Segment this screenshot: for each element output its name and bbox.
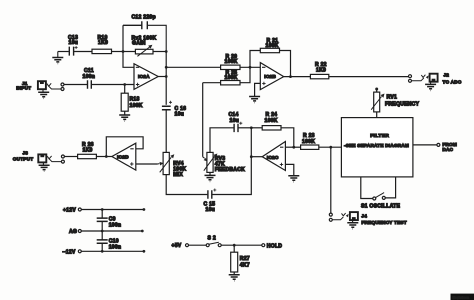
svg-text:10u: 10u <box>230 118 240 124</box>
node: FROM DAC terminal <box>437 142 457 152</box>
node: R19/RV2/feedback junction <box>122 50 125 53</box>
svg-text:+12V: +12V <box>63 208 76 214</box>
wire: IC2D feedback loop <box>106 137 143 157</box>
wire: IC2C + input to ground <box>285 164 293 175</box>
potentiometer RV3 47K FEEDBACK <box>204 152 245 175</box>
svg-text:J3: J3 <box>23 151 29 156</box>
svg-text:100n: 100n <box>109 245 122 251</box>
svg-text:FREQUENCY: FREQUENCY <box>385 101 420 107</box>
capacitor C13 <box>68 35 78 55</box>
svg-text:10u: 10u <box>206 207 216 213</box>
node D: IC2C output junction <box>250 155 253 158</box>
wire: R25 down to RV3 wiper <box>202 83 204 157</box>
node: IC2A output junction <box>165 75 168 78</box>
op-amp IC2A <box>134 64 158 90</box>
svg-text:R18: R18 <box>130 96 140 102</box>
svg-text:GAIN: GAIN <box>132 41 146 47</box>
resistor R18 <box>121 85 143 115</box>
ground G10 (R27) <box>229 275 240 281</box>
wire: R20 to IC2B - input <box>240 66 260 68</box>
jack J3 OUTPUT <box>13 151 65 164</box>
svg-text:10u: 10u <box>175 111 185 117</box>
ground G4 (IC2B +) <box>249 97 260 103</box>
svg-text:J4: J4 <box>361 213 367 218</box>
resistor R19 <box>92 35 112 53</box>
wire: J1 to C11 <box>64 84 87 86</box>
svg-text:100K: 100K <box>265 118 278 124</box>
ground G9 (J4) <box>347 220 358 229</box>
capacitor C12 <box>123 15 166 52</box>
svg-text:TO ADC: TO ADC <box>443 79 462 84</box>
svg-text:1K0: 1K0 <box>83 147 93 153</box>
wire: feedback left vertical (node to C12 rail and IC2A - input) <box>123 25 134 67</box>
wire: C13 to R19 <box>74 51 92 53</box>
ground G3 (R18) <box>119 115 130 121</box>
svg-text:S1 OSCILLATE: S1 OSCILLATE <box>361 204 400 210</box>
ground G1 (C13 left) <box>52 52 63 64</box>
node: IC2B inverting input junction <box>249 66 252 69</box>
svg-text:J2: J2 <box>444 73 450 78</box>
wire: C14 to node A <box>239 127 252 129</box>
svg-text:100K: 100K <box>225 59 238 65</box>
wire: ground to C13 <box>58 51 69 53</box>
svg-text:INPUT: INPUT <box>16 86 31 91</box>
wire: IC2C - input <box>285 146 293 148</box>
svg-text:1K0: 1K0 <box>316 68 326 74</box>
svg-text:-SEE SEPARATE DIAGRAM: -SEE SEPARATE DIAGRAM <box>344 143 409 148</box>
switch S2 <box>206 235 221 246</box>
wire: J3 to R26 <box>64 156 77 158</box>
svg-text:OUTPUT: OUTPUT <box>13 157 33 162</box>
jack J2 TO ADC <box>409 73 462 85</box>
svg-text:100n: 100n <box>83 74 96 80</box>
node: R18 junction <box>123 83 126 86</box>
svg-text:FILTER: FILTER <box>370 133 389 139</box>
wire: IC2C output to node D <box>251 156 262 158</box>
wire: C15 to RV4 bottom <box>166 175 207 195</box>
svg-text:100n: 100n <box>109 223 122 229</box>
wire: C11 to IC2A + input <box>92 84 134 86</box>
wire: R22 to J2 <box>329 76 409 78</box>
potentiometer RV2 GAIN <box>123 35 166 56</box>
node: RV2 right junction <box>165 50 168 53</box>
wire: R26 to IC2D output node <box>96 156 112 158</box>
capacitor C11 <box>83 68 96 89</box>
svg-text:R27: R27 <box>240 256 250 262</box>
svg-text:IC2B: IC2B <box>264 74 276 80</box>
svg-text:+5V: +5V <box>172 243 182 249</box>
ground G8 (J2) <box>425 82 436 91</box>
svg-text:100K: 100K <box>302 139 315 145</box>
node B: IC2C - input / R23 junction <box>292 146 295 149</box>
svg-text:IC2C: IC2C <box>267 155 279 161</box>
svg-text:100K: 100K <box>225 75 238 81</box>
svg-text:MagicScan: MagicScan <box>453 295 470 299</box>
ground G6 (IC2C +) <box>288 176 299 182</box>
terminal HOLD <box>262 243 283 249</box>
capacitor C9 <box>97 210 122 232</box>
resistor R20 <box>221 54 240 70</box>
wire: RV3 wiper arrow <box>203 157 205 159</box>
svg-text:HOLD: HOLD <box>267 243 283 249</box>
ground G2 (J1) <box>38 89 49 98</box>
resistor R26 <box>78 142 97 159</box>
capacitor C10 <box>97 231 122 251</box>
node: R27 junction <box>233 244 236 247</box>
wire: RV4 wiper arrow <box>158 163 160 165</box>
wire: node C down to J4 <box>330 147 332 213</box>
resistor R25 <box>203 67 250 85</box>
jack J4 FREQUENCY TEST <box>329 212 407 225</box>
wire: IC2A out to R20 <box>166 66 220 68</box>
wire: IC2B + input to ground <box>255 83 261 96</box>
svg-text:AG: AG <box>69 229 77 235</box>
op-amp IC2D (mirrored, points left) <box>112 143 136 170</box>
wire: filter to FROM DAC <box>413 144 437 146</box>
terminal +5V <box>172 243 207 249</box>
svg-text:100K: 100K <box>130 103 143 109</box>
node: IC2D output junction <box>105 155 108 158</box>
node: R20 branch junction <box>165 66 168 69</box>
svg-text:C12 220p: C12 220p <box>132 15 156 21</box>
wire: S2 to HOLD <box>221 244 262 246</box>
trimmer RV1 FREQUENCY <box>371 88 419 118</box>
potentiometer RV4 100K MIX <box>160 152 187 178</box>
resistor R24 <box>251 112 293 147</box>
svg-text:RV1: RV1 <box>387 94 398 100</box>
svg-text:10u: 10u <box>69 40 79 46</box>
svg-text:4K7: 4K7 <box>240 262 250 268</box>
resistor R22 <box>310 62 328 79</box>
wire: R19 to node <box>112 51 124 53</box>
capacitor C15 <box>204 189 217 213</box>
wire: node A down through D to C15 loop <box>212 128 251 195</box>
node A: C14/R24/IC2C-out vertical <box>250 126 253 129</box>
svg-text:−12V: −12V <box>63 250 76 256</box>
svg-text:100K: 100K <box>266 43 279 49</box>
rail AG <box>69 229 144 235</box>
switch S1 OSCILLATE <box>361 177 401 210</box>
svg-text:FREQUENCY TEST: FREQUENCY TEST <box>361 220 406 225</box>
resistor R23 <box>294 133 342 149</box>
op-amp IC2C (mirrored, points left) <box>262 142 285 171</box>
wire: IC2D + input to RV4 wiper <box>136 163 158 165</box>
svg-text:FEEDBACK: FEEDBACK <box>215 167 245 173</box>
resistor R21 (feedback) <box>250 38 291 77</box>
ground G7 (J3) <box>39 163 50 172</box>
svg-text:IC2D: IC2D <box>117 155 129 161</box>
wire: IC2B output to R22 <box>284 76 311 78</box>
rail -12V <box>63 250 146 256</box>
wire: RV3 top to C14 <box>210 128 234 153</box>
node C: R23/FILTER/J4 junction <box>329 146 332 149</box>
svg-text:DAC: DAC <box>442 147 453 152</box>
wire: IC2A output <box>158 76 166 78</box>
svg-text:IC2A: IC2A <box>138 74 150 80</box>
wire: output vertical down to C16 <box>165 52 167 105</box>
resistor R27 <box>231 245 250 274</box>
rail +12V <box>63 208 145 214</box>
svg-text:S 2: S 2 <box>208 235 216 241</box>
jack J1 <box>16 81 64 90</box>
capacitor C16 <box>162 101 186 153</box>
node: IC2B output junction <box>289 75 292 78</box>
watermark <box>451 294 474 300</box>
filter block <box>341 118 413 177</box>
capacitor C14 <box>229 112 243 132</box>
svg-text:MIX: MIX <box>173 172 183 178</box>
op-amp IC2B <box>260 63 283 90</box>
svg-text:1K0: 1K0 <box>98 40 108 46</box>
ground G5 (RV3) <box>205 175 216 181</box>
